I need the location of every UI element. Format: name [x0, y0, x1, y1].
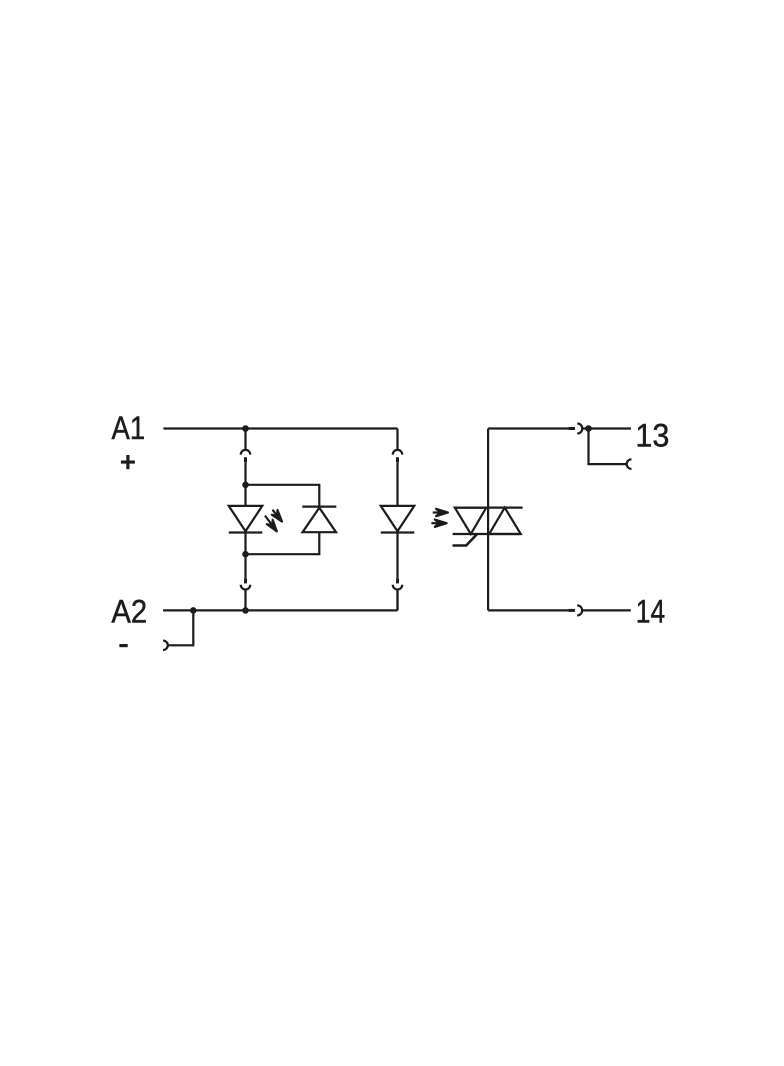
LED D3 triangle [381, 506, 415, 531]
wire socket to label 14 [582, 609, 631, 611]
wire diode branch bottom [246, 532, 320, 554]
wire triac bottom to terminal 14 [488, 609, 568, 611]
LED D1 emission arrow 2 [262, 513, 280, 533]
junction dot left branch/diode top [242, 482, 249, 489]
optocoupler light arrow 1 [433, 509, 448, 516]
wire lower right branch [396, 590, 398, 611]
triac U1 bottom bar [453, 533, 521, 535]
wire diode branch top [246, 485, 320, 507]
LED D1 emission arrow 1 [270, 507, 285, 523]
LED D1 cathode bar [229, 531, 263, 533]
wire A2 horizontal [163, 609, 397, 611]
socket arc terminal 14 [577, 605, 582, 615]
wire left branch to LED D1 [244, 462, 246, 506]
wire LED D3 down [396, 533, 398, 579]
LED D1 triangle [229, 506, 263, 531]
diode D2 triangle [303, 508, 337, 533]
wire A1 horizontal [163, 427, 397, 429]
optocoupler light arrow 2 [431, 520, 446, 527]
LED D3 cathode bar [381, 531, 415, 533]
wire LED D1 to node [244, 533, 246, 579]
pin stub upper left branch [244, 457, 247, 462]
pin plug terminal 14 [568, 609, 575, 612]
triac U1 top bar [455, 507, 523, 509]
wire left branch upper [244, 429, 246, 450]
svg-text:A2: A2 [111, 594, 147, 630]
wire triac vertical [487, 429, 489, 611]
junction dot A2 stub [190, 607, 197, 614]
junction dot A2/left branch [242, 607, 249, 614]
junction dot A1/left branch [242, 425, 249, 432]
pin stub lower right branch [396, 578, 399, 583]
wire triac top to terminal 13 [488, 427, 568, 429]
socket arc 13 stub [627, 459, 632, 469]
triac U1 gate lead [453, 534, 478, 546]
wire right LED branch top corner [396, 429, 398, 450]
svg-text:13: 13 [635, 418, 669, 454]
pin stub lower left branch [244, 578, 247, 583]
wire right LED branch bottom corner [396, 590, 398, 611]
plus sign [121, 455, 135, 469]
diode D2 cathode bar [302, 506, 336, 508]
svg-text:A1: A1 [112, 410, 146, 446]
junction dot node 13 [585, 425, 592, 432]
socket arc upper right branch [393, 450, 403, 455]
wire A2 stub down [168, 610, 194, 645]
socket arc terminal 13 [577, 424, 582, 434]
wire lower left branch [244, 590, 246, 611]
pin stub upper right branch [396, 457, 399, 462]
wire right branch to LED D3 [396, 462, 398, 506]
minus sign [119, 644, 127, 647]
svg-text:14: 14 [636, 594, 665, 630]
pin plug terminal 13 [568, 427, 575, 430]
socket arc A2 stub [163, 641, 168, 651]
triac U1 left triangle [455, 508, 487, 534]
socket arc lower right branch [393, 585, 403, 590]
socket arc lower left branch [241, 585, 251, 590]
wire node 13 stub down [589, 429, 627, 465]
junction dot left branch/diode bottom [242, 551, 249, 558]
socket arc upper left branch [241, 450, 251, 455]
triac U1 right triangle [489, 508, 521, 534]
wire socket to node 13 [582, 427, 631, 429]
